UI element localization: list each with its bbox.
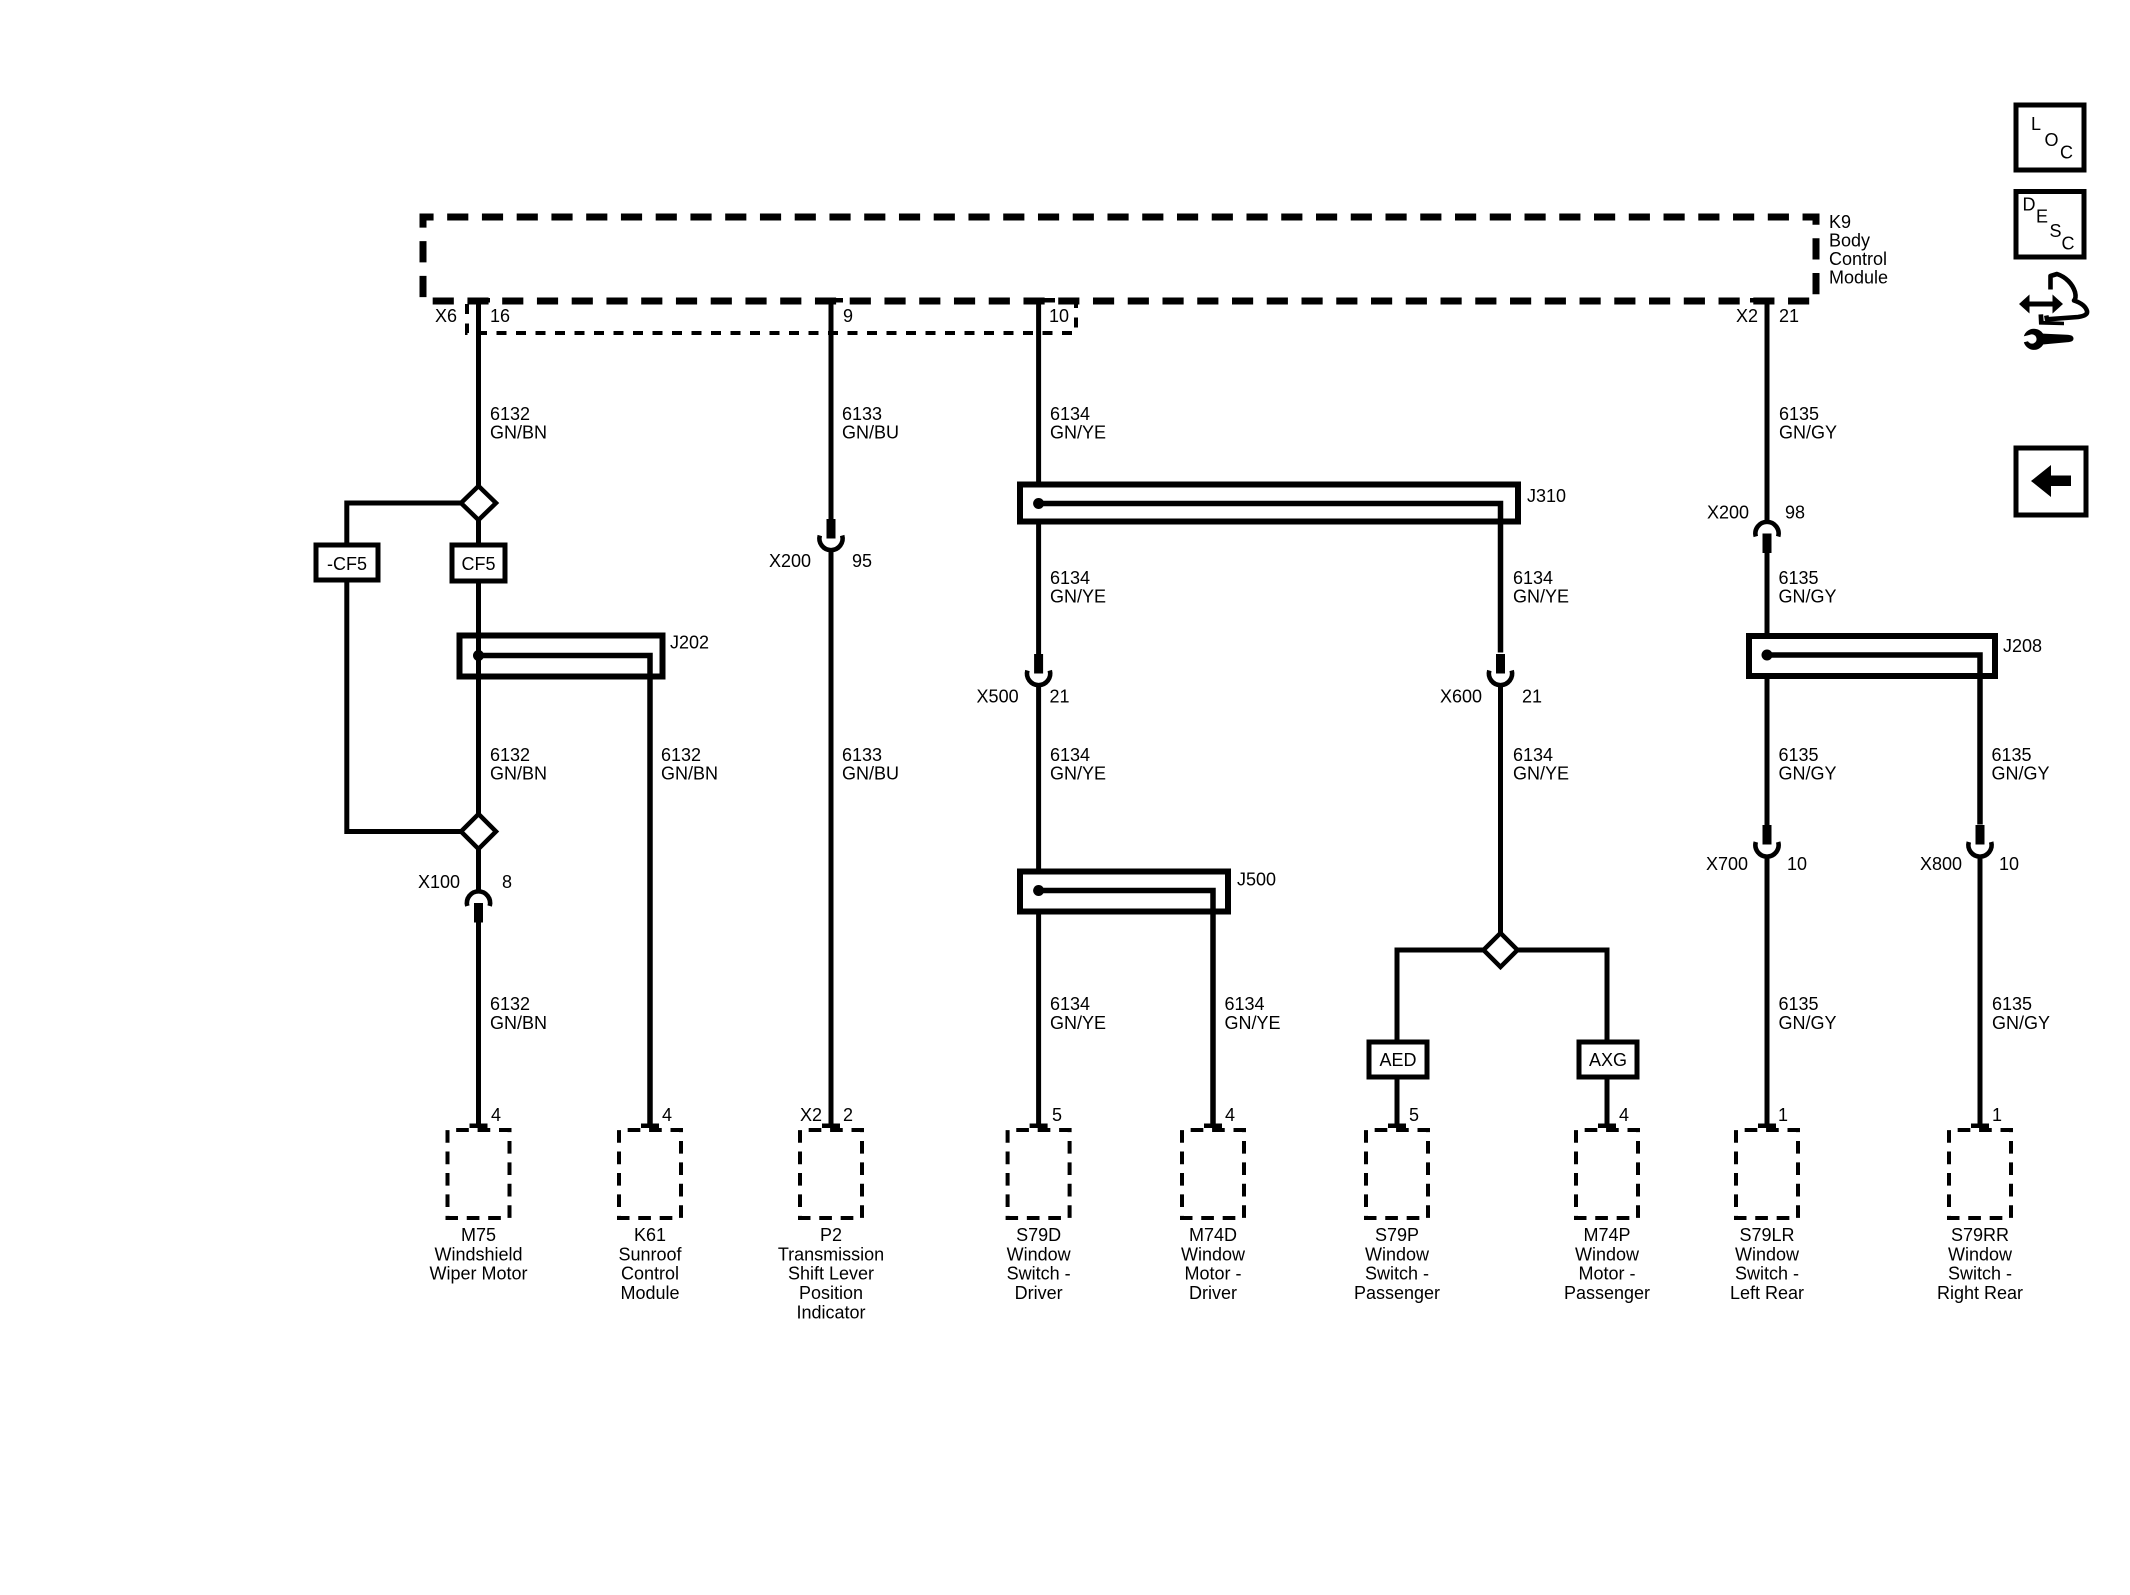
- svg-text:6135: 6135: [1992, 745, 2032, 765]
- svg-text:GN/BN: GN/BN: [661, 764, 718, 784]
- wire X200 to P2: [829, 552, 834, 1128]
- splice pack J202: [460, 636, 663, 1129]
- svg-text:K9: K9: [1829, 212, 1851, 232]
- svg-text:6132: 6132: [490, 994, 530, 1014]
- wire 6132 from pin 16 to splice diamond: [476, 300, 481, 486]
- svg-text:6135: 6135: [1779, 994, 1819, 1014]
- svg-text:4: 4: [1619, 1105, 1629, 1125]
- svg-text:S79RR: S79RR: [1951, 1225, 2009, 1245]
- wire splice to AXG: [1518, 950, 1608, 1042]
- component S79D dashed box: [1008, 1130, 1070, 1218]
- connector X200 pin 95 (cup up): [819, 519, 842, 550]
- fuse CF5 box: [452, 545, 505, 581]
- splice pack J500: [1020, 872, 1228, 1129]
- P2 label: [778, 1225, 884, 1322]
- wire X600 to passenger splice: [1498, 687, 1503, 933]
- svg-text:GN/YE: GN/YE: [1050, 587, 1106, 607]
- svg-text:M74D: M74D: [1189, 1225, 1237, 1245]
- wire to -CF5: [347, 503, 461, 545]
- P2 terminal tick: [822, 1124, 840, 1129]
- wire X200-98 to J208: [1765, 553, 1770, 639]
- connector X200 pin 98 (cup down): [1755, 522, 1778, 553]
- K9 Body Control Module dashed box: [423, 217, 1816, 301]
- svg-text:10: 10: [1787, 854, 1807, 874]
- S79LR label: [1730, 1225, 1804, 1303]
- wire label 6134 GN/YE (row C right): [1513, 745, 1569, 784]
- S79D label: [1007, 1225, 1072, 1303]
- S79RR terminal tick: [1971, 1124, 1989, 1129]
- svg-text:GN/GY: GN/GY: [1779, 764, 1837, 784]
- connector X6 dotted boundary: [467, 304, 1076, 333]
- svg-text:6134: 6134: [1050, 745, 1090, 765]
- wire label 6132 GN/BN (row A): [490, 404, 547, 443]
- connector X700 pin 10 (cup up): [1755, 825, 1778, 857]
- wire X100 to M75: [476, 923, 481, 1129]
- wire diamond to CF5: [476, 520, 481, 545]
- svg-text:Switch -: Switch -: [1007, 1264, 1071, 1284]
- component P2 dashed box: [800, 1130, 862, 1218]
- svg-text:Passenger: Passenger: [1354, 1283, 1440, 1303]
- splice diamond (passenger): [1484, 933, 1518, 967]
- svg-text:X200: X200: [769, 551, 811, 571]
- svg-text:S79LR: S79LR: [1739, 1225, 1794, 1245]
- wire label 6135 GN/GY (row C right): [1992, 745, 2050, 784]
- svg-text:GN/BN: GN/BN: [490, 1013, 547, 1033]
- svg-text:X700: X700: [1706, 854, 1748, 874]
- svg-text:C: C: [2062, 234, 2075, 254]
- svg-text:5: 5: [1052, 1105, 1062, 1125]
- svg-text:Window: Window: [1181, 1244, 1246, 1264]
- wire label 6132 GN/BN (row C right branch): [661, 745, 718, 784]
- component K61 dashed box: [619, 1130, 681, 1218]
- wire lower splice to X100: [476, 849, 481, 890]
- connector X600 pin 21 (cup up): [1489, 654, 1512, 685]
- svg-text:Motor -: Motor -: [1578, 1264, 1635, 1284]
- svg-text:M74P: M74P: [1583, 1225, 1630, 1245]
- svg-text:6134: 6134: [1050, 404, 1090, 424]
- svg-text:D: D: [2023, 195, 2036, 215]
- svg-text:S79P: S79P: [1375, 1225, 1419, 1245]
- wire label 6134 GN/YE (row D, M74D): [1225, 994, 1281, 1033]
- svg-text:J310: J310: [1527, 486, 1566, 506]
- svg-text:4: 4: [491, 1105, 501, 1125]
- svg-text:6135: 6135: [1992, 994, 2032, 1014]
- wire X500 to J500: [1036, 687, 1041, 874]
- K61 label: [618, 1225, 682, 1303]
- svg-text:16: 16: [490, 306, 510, 326]
- pin 21 terminal tick: [1750, 298, 1768, 303]
- svg-text:C: C: [2060, 143, 2073, 163]
- svg-text:GN/BU: GN/BU: [842, 764, 899, 784]
- M74D terminal tick: [1204, 1124, 1222, 1129]
- wire label 6135 GN/GY (row B): [1779, 568, 1837, 607]
- svg-text:GN/BN: GN/BN: [490, 764, 547, 784]
- pin 16 terminal tick: [472, 298, 490, 303]
- svg-text:2: 2: [843, 1105, 853, 1125]
- S79RR label: [1937, 1225, 2023, 1303]
- wire label 6132 GN/BN (row D): [490, 994, 547, 1033]
- svg-text:1: 1: [1992, 1105, 2002, 1125]
- M74D label: [1181, 1225, 1246, 1303]
- svg-text:6135: 6135: [1779, 568, 1819, 588]
- wire label 6135 GN/GY (row C): [1779, 745, 1837, 784]
- svg-text:6134: 6134: [1050, 568, 1090, 588]
- svg-text:Left Rear: Left Rear: [1730, 1283, 1804, 1303]
- svg-text:6135: 6135: [1779, 745, 1819, 765]
- svg-text:Right Rear: Right Rear: [1937, 1283, 2023, 1303]
- svg-text:GN/GY: GN/GY: [1779, 1013, 1837, 1033]
- svg-text:21: 21: [1779, 306, 1799, 326]
- svg-text:21: 21: [1050, 687, 1070, 707]
- svg-text:6134: 6134: [1513, 568, 1553, 588]
- jump-to-wiring icon: wrench: [2019, 329, 2074, 350]
- connector AED box: [1369, 1042, 1427, 1077]
- wire from -CF5 to lower splice: [347, 580, 461, 832]
- svg-text:Switch -: Switch -: [1365, 1264, 1429, 1284]
- svg-text:-CF5: -CF5: [327, 554, 367, 574]
- svg-text:Shift Lever: Shift Lever: [788, 1264, 874, 1284]
- svg-text:J500: J500: [1237, 870, 1276, 890]
- splice pack J310: [1020, 485, 1518, 653]
- svg-text:6134: 6134: [1225, 994, 1265, 1014]
- svg-text:Module: Module: [1829, 268, 1888, 288]
- M74P label: [1564, 1225, 1650, 1303]
- M74P terminal tick: [1598, 1124, 1616, 1129]
- svg-text:GN/YE: GN/YE: [1050, 423, 1106, 443]
- svg-text:X600: X600: [1440, 687, 1482, 707]
- wire AED to S79P: [1395, 1077, 1400, 1128]
- splice pack J208: [1749, 636, 1995, 825]
- svg-text:X2: X2: [800, 1105, 822, 1125]
- svg-text:10: 10: [1049, 306, 1069, 326]
- svg-text:P2: P2: [820, 1225, 842, 1245]
- S79P terminal tick: [1388, 1124, 1406, 1129]
- jump-to-wiring icon: outline: [2046, 274, 2087, 319]
- svg-text:Transmission: Transmission: [778, 1244, 884, 1264]
- S79P label: [1354, 1225, 1440, 1303]
- K61 terminal tick: [641, 1124, 659, 1129]
- wire 6134 from pin 10 to J310: [1036, 300, 1041, 487]
- wire splice to AED: [1397, 950, 1484, 1042]
- svg-text:GN/GY: GN/GY: [1992, 764, 2050, 784]
- svg-text:L: L: [2031, 114, 2041, 134]
- svg-text:Switch -: Switch -: [1735, 1264, 1799, 1284]
- svg-text:GN/YE: GN/YE: [1513, 587, 1569, 607]
- svg-text:Body: Body: [1829, 231, 1870, 251]
- wire label 6135 GN/GY (row A): [1779, 404, 1837, 443]
- wire X700 to S79LR: [1765, 858, 1770, 1128]
- svg-text:GN/YE: GN/YE: [1050, 1013, 1106, 1033]
- connector X100 pin 8 (cup down): [467, 891, 490, 922]
- pin 9 terminal tick: [825, 298, 843, 303]
- svg-text:AXG: AXG: [1589, 1050, 1627, 1070]
- S79LR terminal tick: [1758, 1124, 1776, 1129]
- svg-text:Wiper Motor: Wiper Motor: [429, 1264, 527, 1284]
- connector X800 pin 10 (cup up): [1968, 825, 1991, 857]
- svg-text:8: 8: [502, 872, 512, 892]
- svg-text:K61: K61: [634, 1225, 666, 1245]
- svg-text:S79D: S79D: [1016, 1225, 1061, 1245]
- svg-text:Motor -: Motor -: [1184, 1264, 1241, 1284]
- svg-text:GN/GY: GN/GY: [1779, 423, 1837, 443]
- component S79P dashed box: [1366, 1130, 1428, 1218]
- LOC icon box: [2016, 105, 2084, 170]
- wire J310 to X500: [1036, 521, 1041, 654]
- svg-text:6132: 6132: [661, 745, 701, 765]
- wire label 6133 GN/BU (row A): [842, 404, 899, 443]
- component S79RR dashed box: [1949, 1130, 2011, 1218]
- svg-text:Control: Control: [621, 1264, 679, 1284]
- svg-text:Window: Window: [1948, 1244, 2013, 1264]
- svg-text:Driver: Driver: [1189, 1283, 1237, 1303]
- wire label 6134 GN/YE (row D): [1050, 994, 1106, 1033]
- M75 terminal tick: [470, 1124, 488, 1129]
- M75 label: [429, 1225, 527, 1284]
- svg-text:J208: J208: [2003, 636, 2042, 656]
- svg-text:GN/YE: GN/YE: [1050, 764, 1106, 784]
- splice diamond (upper): [461, 486, 496, 520]
- wire J208 to X700: [1765, 676, 1770, 825]
- svg-text:X200: X200: [1707, 503, 1749, 523]
- wire label 6135 GN/GY (row D right): [1992, 994, 2050, 1033]
- svg-text:GN/YE: GN/YE: [1225, 1013, 1281, 1033]
- jump-to-wiring icon: double arrow: [2019, 295, 2063, 314]
- svg-text:Indicator: Indicator: [796, 1302, 865, 1322]
- wire CF5 to J202 and through to lower splice: [476, 581, 481, 814]
- connector AXG box: [1579, 1042, 1637, 1077]
- component M75 dashed box: [448, 1130, 510, 1218]
- svg-text:M75: M75: [461, 1225, 496, 1245]
- component M74D dashed box: [1182, 1130, 1244, 1218]
- splice diamond (lower): [461, 814, 496, 849]
- wire label 6134 GN/YE (row C): [1050, 745, 1106, 784]
- wire label 6135 GN/GY (row D): [1779, 994, 1837, 1033]
- svg-text:98: 98: [1785, 503, 1805, 523]
- svg-text:Passenger: Passenger: [1564, 1283, 1650, 1303]
- svg-text:S: S: [2050, 221, 2062, 241]
- svg-text:Window: Window: [1365, 1244, 1430, 1264]
- svg-text:6132: 6132: [490, 404, 530, 424]
- svg-text:Control: Control: [1829, 249, 1887, 269]
- svg-text:1: 1: [1778, 1105, 1788, 1125]
- wire label 6134 GN/YE (row B): [1050, 568, 1106, 607]
- svg-text:6133: 6133: [842, 404, 882, 424]
- DESC icon box: [2016, 192, 2084, 258]
- svg-text:Window: Window: [1575, 1244, 1640, 1264]
- connector X500 pin 21 (cup up): [1027, 654, 1050, 685]
- svg-text:6133: 6133: [842, 745, 882, 765]
- wire 6133 from pin 9 to X200: [829, 300, 834, 519]
- component M74P dashed box: [1576, 1130, 1638, 1218]
- wire AXG to M74P: [1605, 1077, 1610, 1128]
- wire label 6134 GN/YE (row B right): [1513, 568, 1569, 607]
- svg-text:CF5: CF5: [461, 554, 495, 574]
- svg-text:GN/BN: GN/BN: [490, 423, 547, 443]
- svg-text:Driver: Driver: [1015, 1283, 1063, 1303]
- svg-text:X2: X2: [1736, 306, 1758, 326]
- svg-text:Window: Window: [1007, 1244, 1072, 1264]
- svg-text:Position: Position: [799, 1283, 863, 1303]
- wire label 6134 GN/YE (row A): [1050, 404, 1106, 443]
- svg-text:21: 21: [1522, 687, 1542, 707]
- jump-to-wiring icon: foot bar: [2039, 314, 2065, 325]
- wire X800 to S79RR: [1978, 858, 1983, 1128]
- wire label 6133 GN/BU (row C): [842, 745, 899, 784]
- wire 6135 from pin 21 to X200: [1765, 300, 1770, 520]
- svg-text:X6: X6: [435, 306, 457, 326]
- svg-text:X100: X100: [418, 872, 460, 892]
- fuse -CF5 box: [316, 545, 378, 580]
- S79D terminal tick: [1030, 1124, 1048, 1129]
- svg-text:6134: 6134: [1513, 745, 1553, 765]
- svg-text:Sunroof: Sunroof: [618, 1244, 682, 1264]
- svg-text:Module: Module: [620, 1283, 679, 1303]
- svg-text:4: 4: [1225, 1105, 1235, 1125]
- svg-text:Window: Window: [1735, 1244, 1800, 1264]
- svg-text:E: E: [2036, 207, 2048, 227]
- svg-text:6132: 6132: [490, 745, 530, 765]
- svg-text:GN/YE: GN/YE: [1513, 764, 1569, 784]
- K9 Body Control Module label: [1829, 212, 1888, 288]
- pin 10 terminal tick: [1036, 298, 1055, 303]
- back arrow icon box: [2016, 448, 2086, 515]
- svg-text:AED: AED: [1379, 1050, 1416, 1070]
- svg-text:6134: 6134: [1050, 994, 1090, 1014]
- component S79LR dashed box: [1736, 1130, 1798, 1218]
- svg-text:GN/GY: GN/GY: [1992, 1013, 2050, 1033]
- svg-text:O: O: [2045, 130, 2059, 150]
- svg-text:GN/BU: GN/BU: [842, 423, 899, 443]
- svg-text:6135: 6135: [1779, 404, 1819, 424]
- svg-text:10: 10: [1999, 854, 2019, 874]
- svg-text:4: 4: [662, 1105, 672, 1125]
- svg-text:GN/GY: GN/GY: [1779, 587, 1837, 607]
- svg-text:95: 95: [852, 551, 872, 571]
- wire J500 to S79D: [1036, 912, 1041, 1129]
- svg-text:X800: X800: [1920, 854, 1962, 874]
- svg-text:Windshield: Windshield: [434, 1244, 522, 1264]
- svg-text:J202: J202: [670, 633, 709, 653]
- svg-text:9: 9: [843, 306, 853, 326]
- svg-text:Switch -: Switch -: [1948, 1264, 2012, 1284]
- svg-text:5: 5: [1409, 1105, 1419, 1125]
- wire label 6132 GN/BN (row C left): [490, 745, 547, 784]
- svg-text:X500: X500: [977, 687, 1019, 707]
